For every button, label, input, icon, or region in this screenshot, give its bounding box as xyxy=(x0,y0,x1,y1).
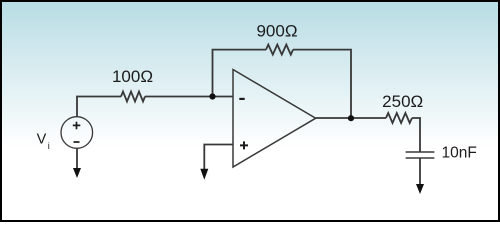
resistor R1 100 ohm xyxy=(121,92,145,102)
node A junction dot at inverting input xyxy=(209,93,215,99)
ground arrow under capacitor xyxy=(416,184,424,194)
wire: feedback left vertical + top left segment xyxy=(213,50,267,97)
svg-text:i: i xyxy=(48,141,50,151)
wire: output to 250 ohm xyxy=(316,117,386,119)
wire: feedback top right segment + right vertical to output node xyxy=(293,50,351,118)
source minus sign xyxy=(74,141,80,143)
op-amp minus sign xyxy=(239,98,244,100)
wire: resistor to op-amp inverting input xyxy=(145,96,233,98)
resistor R2 900 ohm xyxy=(266,45,293,55)
svg-text:250Ω: 250Ω xyxy=(382,92,423,111)
svg-text:10nF: 10nF xyxy=(442,145,477,162)
wire: non-inverting input stub xyxy=(204,145,233,171)
svg-text:V: V xyxy=(37,131,47,147)
wire: source bottom to ground xyxy=(76,148,78,169)
source plus sign xyxy=(73,122,81,130)
resistor R3 250 ohm xyxy=(386,113,412,123)
op-amp plus sign xyxy=(240,141,248,149)
ground arrow under source xyxy=(73,168,81,178)
wire: capacitor to ground xyxy=(419,158,421,186)
capacitor C1 plates xyxy=(406,151,435,153)
wire: source top to input line xyxy=(77,97,121,117)
wire: 250 ohm to capacitor corner xyxy=(412,118,420,152)
voltage source V1 circle xyxy=(61,117,93,149)
ground arrow under non-inverting input xyxy=(200,169,208,180)
svg-text:100Ω: 100Ω xyxy=(112,67,153,86)
node B junction dot at output xyxy=(348,115,354,121)
svg-text:900Ω: 900Ω xyxy=(256,21,297,40)
op-amp U1 triangle xyxy=(233,70,316,168)
